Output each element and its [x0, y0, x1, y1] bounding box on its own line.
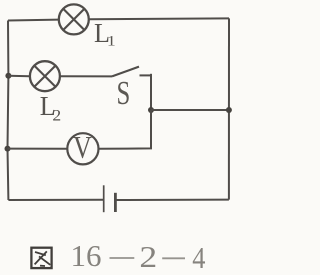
wire: bottom rail right segment — [115, 199, 228, 201]
wire: L2 branch from left rail — [8, 75, 29, 77]
svg-text:V: V — [73, 130, 92, 165]
caption glyph: 图 (tu, "figure") drawn as strokes — [31, 248, 51, 268]
switch S right contact — [140, 74, 152, 76]
wire: top rail right segment — [89, 17, 229, 20]
wire: junction down to voltmeter row — [99, 110, 151, 149]
svg-text:16: 16 — [71, 238, 102, 273]
node: right rail junction — [226, 107, 232, 113]
label L2 — [40, 90, 61, 124]
wire: top rail left segment — [8, 19, 59, 22]
wire: right rail — [228, 18, 230, 199]
node: left rail / voltmeter branch — [5, 146, 11, 152]
svg-text:2: 2 — [52, 106, 61, 124]
caption dash 1 — [110, 257, 135, 259]
node: switch/voltmeter junction — [148, 107, 154, 113]
node: left rail / lamp L2 branch — [5, 73, 11, 79]
svg-text:1: 1 — [107, 34, 116, 49]
battery short plate (negative) — [114, 193, 117, 212]
wire: bottom rail left segment — [8, 199, 103, 201]
lamp L1 — [59, 4, 89, 34]
svg-text:S: S — [117, 76, 131, 112]
label L1 — [94, 17, 116, 49]
wire: junction to right rail — [151, 109, 229, 111]
caption dash 2 — [162, 257, 185, 259]
wire: switch down to junction — [150, 74, 152, 110]
svg-text:4: 4 — [192, 241, 205, 275]
switch S lever (open) — [112, 67, 139, 77]
svg-text:2: 2 — [139, 240, 157, 274]
wire: L2 to switch pivot — [60, 75, 112, 77]
voltmeter V — [67, 133, 98, 164]
battery long plate (positive) — [103, 185, 105, 212]
wire: left rail — [7, 21, 10, 201]
wire: voltmeter to left rail — [8, 148, 68, 150]
lamp L2 — [30, 61, 60, 91]
